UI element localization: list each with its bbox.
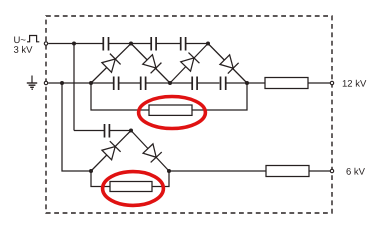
wire lower stage feed to C8 [74, 130, 104, 132]
terminal input 3 kV [44, 42, 47, 45]
junction node top rail stage2 [206, 42, 210, 46]
capacitor C6 [192, 77, 197, 91]
junction node bottom rail mid [168, 81, 172, 85]
junction node bottom rail left [89, 81, 93, 85]
capacitor C2 [151, 37, 156, 51]
junction node lower stage peak [129, 129, 133, 133]
ground [27, 76, 37, 90]
junction node top rail stage1 [129, 42, 133, 46]
wire top rail from input terminal to C1 [48, 43, 103, 45]
wire bottom rail C6 to C7 [197, 82, 219, 84]
wire diagonal for D5 [91, 131, 131, 172]
wire loop stage2 right [152, 171, 169, 187]
wire bottom rail C4 to C5 [119, 82, 140, 84]
junction node bottom rail right 12kV [245, 81, 249, 85]
marker ellipse stage2 [103, 172, 164, 206]
resistor R2 [265, 78, 308, 89]
diode D2 [142, 54, 161, 73]
svg-text:6 kV: 6 kV [346, 167, 366, 178]
wire diagonal for D1 [91, 44, 131, 84]
junction node lower rail left [89, 169, 93, 173]
wire loop stage1 left [91, 83, 149, 110]
wire R2 to 12kV terminal [308, 82, 330, 84]
diode D3 [180, 53, 199, 72]
wire lower rail node to R4 [169, 170, 266, 172]
wire C8 to lower peak node [110, 130, 131, 132]
capacitor C1 [103, 37, 108, 51]
junction node ground rail tap [60, 81, 64, 85]
capacitor C4 [114, 77, 119, 91]
resistor R4 [266, 166, 309, 177]
wire top rail C1 to C2 [109, 43, 151, 45]
capacitor C5 [141, 77, 146, 91]
wire top rail C3 to stage2 node [186, 43, 208, 45]
wire top rail C2 to C3 [156, 43, 180, 45]
diode D6 [142, 143, 161, 162]
terminal ground [44, 81, 47, 84]
marker ellipse stage1 [139, 97, 206, 129]
resistor R1 [149, 105, 192, 115]
wire R4 to 6kV terminal [309, 170, 330, 172]
wire diagonal for D6 [131, 131, 169, 172]
terminal 6 kV [330, 169, 333, 172]
terminal 12 kV [330, 81, 333, 84]
diode D4 [219, 54, 238, 73]
wire diagonal for D3 [170, 44, 208, 84]
wire vertical from top rail to lower stage [73, 44, 75, 131]
wire loop stage1 right [192, 83, 247, 110]
wire bottom rail C7 to R2 [226, 82, 265, 84]
svg-text:12 kV: 12 kV [342, 79, 367, 90]
capacitor C3 [181, 37, 186, 51]
junction node on AC rail at tap [72, 42, 76, 46]
wire loop stage2 left [91, 171, 110, 187]
label U~ pulse 3 kV [13, 35, 39, 56]
wire vertical from ground rail to lower rail [62, 83, 91, 171]
wire bottom rail from ground terminal to C4 [48, 82, 113, 84]
svg-text:3 kV: 3 kV [13, 45, 33, 56]
resistor R3 [110, 182, 152, 192]
diode D5 [101, 141, 120, 160]
wire diagonal for D2 [131, 44, 170, 84]
diode D1 [101, 54, 120, 73]
dashed enclosure boundary [46, 16, 332, 213]
junction node lower rail right 6kV [167, 169, 171, 173]
capacitor C8 [105, 124, 110, 138]
wire diagonal for D4 [208, 44, 247, 84]
wire bottom rail C5 to C6 [146, 82, 192, 84]
capacitor C7 [221, 77, 226, 91]
